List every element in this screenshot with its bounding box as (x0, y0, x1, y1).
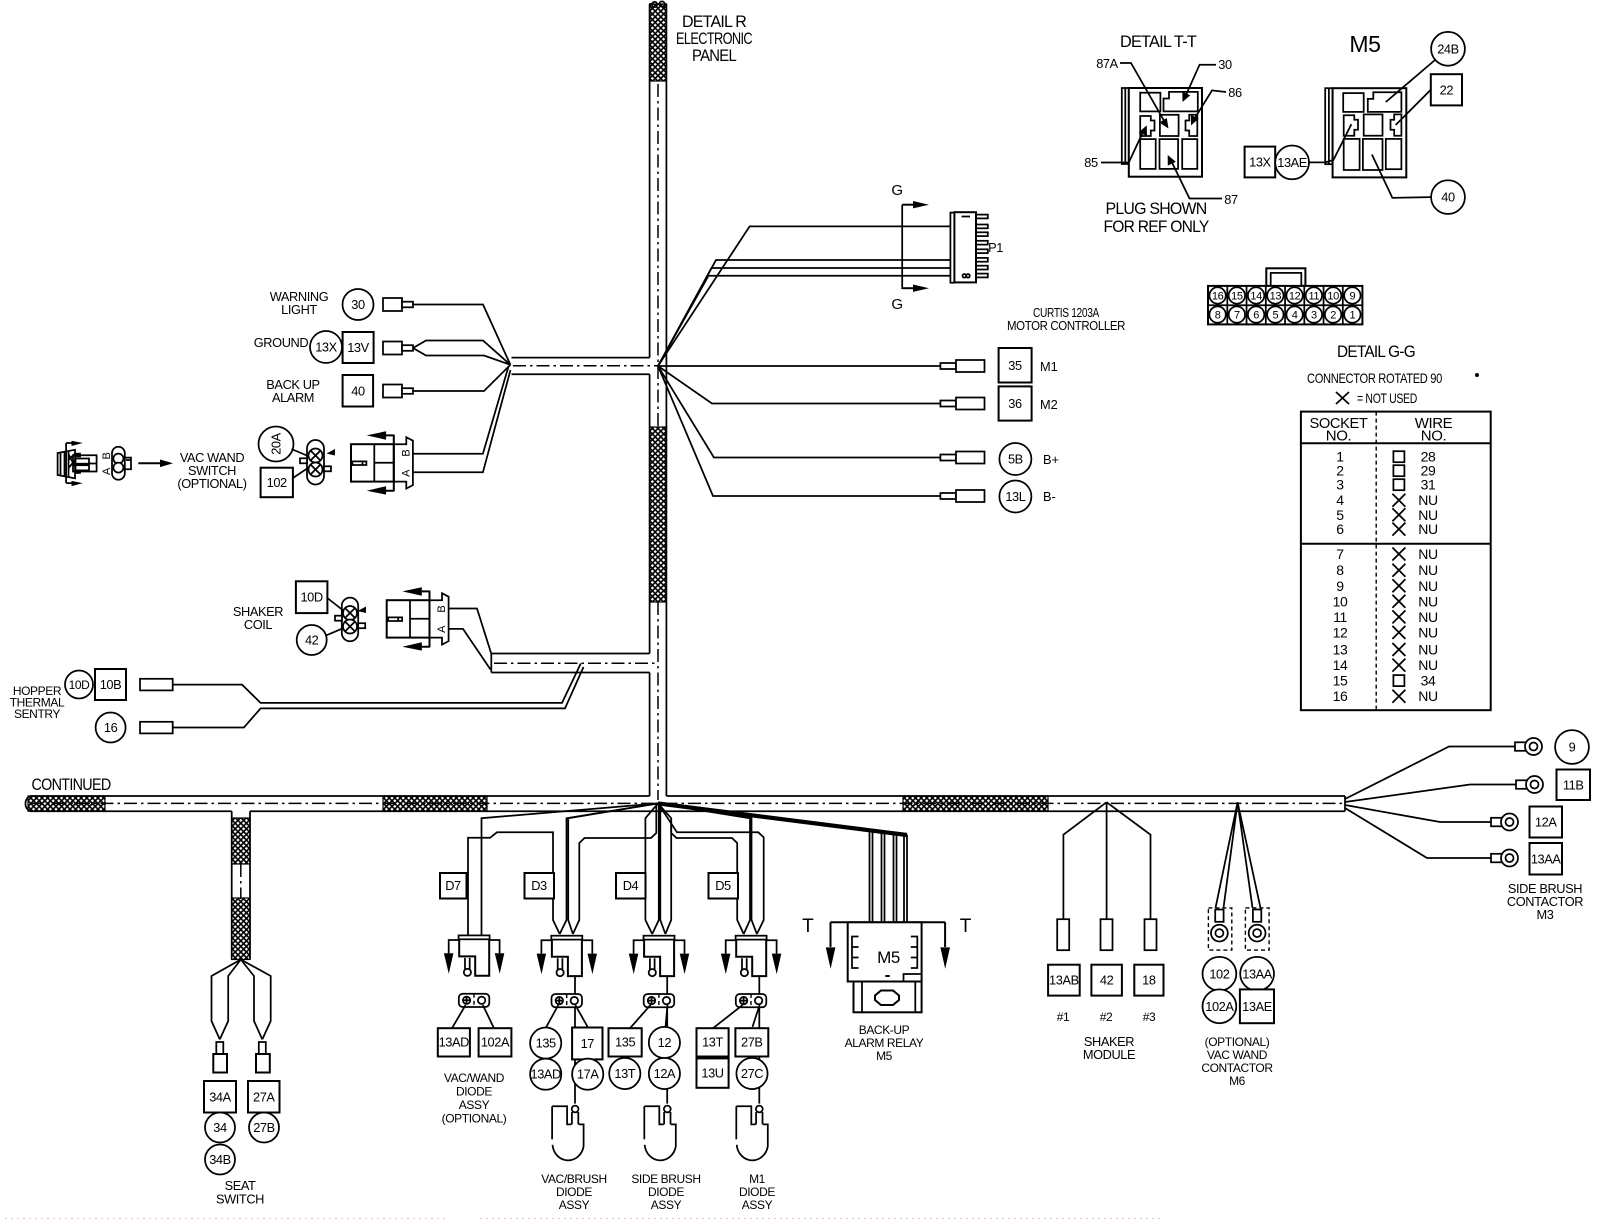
wire circle 27B (249, 1113, 279, 1143)
wire circle 16 (96, 713, 126, 743)
svg-text:17: 17 (581, 1036, 595, 1051)
trunk center line (dash-dot) (657, 84, 659, 800)
scan artifact pink dotted line (5, 1218, 1160, 1220)
svg-text:NO.: NO. (1326, 428, 1351, 445)
svg-text:40: 40 (351, 384, 365, 399)
svg-text:DETAIL R: DETAIL R (682, 13, 747, 31)
wire junction to B- terminal (658, 366, 940, 496)
svg-text:7: 7 (1234, 309, 1240, 321)
wire bundle junction to relay M5 (bold) (658, 803, 907, 835)
svg-text:NU: NU (1418, 492, 1438, 508)
relay M5 (back-up alarm relay) (826, 922, 950, 1012)
wire D3 left V to D7 left lead (shelf) (468, 832, 560, 935)
svg-text:G: G (891, 182, 902, 199)
label 86 with leader arrow (1191, 85, 1242, 125)
svg-text:27C: 27C (741, 1066, 763, 1081)
terminal spade B- (940, 490, 984, 502)
wire box 13V (343, 332, 374, 363)
wire circle 13AD (D3) (530, 1059, 561, 1090)
svg-text:M5: M5 (877, 948, 900, 967)
wire box 10B (95, 669, 126, 700)
svg-text:12: 12 (658, 1035, 672, 1050)
wire panel junction to P1 (4 wires) (658, 226, 950, 366)
svg-text:LIGHT: LIGHT (281, 302, 317, 317)
trunk sheath hatch (top) (650, 4, 667, 81)
svg-text:30: 30 (351, 297, 365, 312)
svg-text:16: 16 (1212, 290, 1224, 302)
svg-text:DETAIL G-G: DETAIL G-G (1337, 343, 1415, 361)
wire junction shelf to D5 right V (658, 803, 764, 934)
wire junction to D7 (right lead) (482, 803, 659, 935)
svg-text:B: B (436, 606, 448, 613)
label M1 DIODE ASSY (739, 1172, 775, 1212)
wire main vertical harness trunk (electronic panel cable) (650, 1, 667, 796)
svg-text:11: 11 (1333, 609, 1347, 625)
svg-text:9: 9 (1336, 578, 1344, 594)
wire junction shelf to D3 right V (573, 803, 656, 934)
wire circle 13AA (M6) (1240, 957, 1274, 991)
svg-text:VAC/BRUSH: VAC/BRUSH (541, 1172, 607, 1186)
svg-text:G: G (891, 296, 902, 313)
connector 2-pin (D4 diode leads) (644, 994, 675, 1007)
svg-text:7: 7 (1336, 546, 1344, 562)
svg-text:8: 8 (1215, 309, 1221, 321)
svg-text:ASSY: ASSY (742, 1198, 773, 1212)
wire box 13AA (1530, 843, 1563, 875)
svg-text:DIODE: DIODE (739, 1185, 775, 1199)
svg-text:102: 102 (267, 475, 287, 490)
terminal spade (hopper bottom) (140, 722, 173, 734)
svg-text:13X: 13X (1249, 155, 1271, 170)
diode symbol (D5 M1) (736, 1106, 768, 1161)
svg-text:10D: 10D (300, 590, 322, 605)
label PLUG SHOWN FOR REF ONLY (1104, 200, 1210, 236)
svg-text:24B: 24B (1437, 41, 1459, 56)
svg-text:5B: 5B (1008, 452, 1023, 467)
wire box 17 (D3) (572, 1028, 602, 1060)
connector diode-assy plug D7 (444, 935, 504, 976)
wire box 13AD (D7) (438, 1028, 470, 1056)
wire D3 2-pin to diode (behind labels) (574, 1007, 576, 1103)
wire M6 contactor drops (1216, 802, 1261, 908)
connector 3-pin oval (vac wand switch) (101, 447, 131, 480)
svg-text:T: T (802, 916, 814, 937)
wire box 35 (999, 348, 1032, 383)
label DETAIL R ELECTRONIC PANEL (676, 13, 753, 65)
svg-text:6: 6 (1253, 309, 1259, 321)
label WARNING LIGHT (270, 289, 329, 317)
wire circle 13T (D4) (609, 1058, 640, 1089)
svg-text:NU: NU (1418, 642, 1438, 658)
svg-text:85: 85 (1084, 155, 1098, 170)
wire ground pair to junction (413, 341, 510, 365)
wire circle 12 (D4) (649, 1027, 680, 1058)
svg-text:A: A (436, 625, 448, 633)
terminal spade M1 (940, 360, 984, 372)
wire box 42 (shaker module) (1091, 965, 1122, 996)
svg-text:15: 15 (1231, 290, 1243, 302)
svg-text:27B: 27B (253, 1120, 275, 1135)
wire circle 24B with leader (1386, 32, 1465, 102)
leader 20A to lamp (292, 449, 309, 456)
svg-text:GROUND: GROUND (254, 335, 309, 350)
svg-text:(OPTIONAL): (OPTIONAL) (177, 476, 246, 491)
svg-text:13AE: 13AE (1242, 999, 1272, 1014)
label CURTIS 1203A MOTOR CONTROLLER (1007, 305, 1125, 333)
wire D4 2-pin to diode (behind labels) (666, 1007, 668, 1103)
svg-text:9: 9 (1569, 740, 1576, 755)
svg-text:NU: NU (1418, 562, 1438, 578)
horizontal trunk hatch (mid-right) (903, 796, 1048, 811)
wire shaker module drops (1063, 802, 1150, 919)
wire box 102A (D7) (479, 1028, 512, 1056)
connector diode-assy plug D5 (721, 936, 781, 977)
svg-text:PANEL: PANEL (692, 47, 737, 65)
svg-text:13AA: 13AA (1531, 851, 1562, 866)
svg-text:4: 4 (1336, 492, 1344, 508)
svg-text:ALARM RELAY: ALARM RELAY (845, 1036, 924, 1050)
arrow pointer to vac wand switch label (138, 460, 173, 468)
svg-text:NU: NU (1418, 624, 1438, 640)
svg-text:ALARM: ALARM (272, 390, 314, 405)
terminal spade B+ (940, 452, 984, 464)
svg-text:13AB: 13AB (1049, 973, 1079, 988)
svg-text:40: 40 (1441, 190, 1455, 205)
svg-text:M1: M1 (1040, 359, 1058, 374)
label 87 with leader arrow (1168, 155, 1238, 207)
wire box 13U (D5) (697, 1058, 729, 1087)
terminal ring (13AA) (1491, 850, 1518, 867)
svg-text:(OPTIONAL): (OPTIONAL) (1205, 1035, 1270, 1049)
terminal ring M6 right (dashed box) (1245, 908, 1269, 950)
horizontal trunk hatch (mid-left) (383, 796, 487, 811)
switch S1 vac wand switch pictorial (58, 441, 97, 486)
svg-text:B-: B- (1043, 489, 1056, 504)
wire circle 13L (999, 481, 1031, 513)
svg-text:1: 1 (1349, 309, 1355, 321)
svg-text:13T: 13T (614, 1066, 635, 1081)
svg-text:SIDE BRUSH: SIDE BRUSH (631, 1172, 700, 1186)
wire box D3 (525, 873, 555, 899)
svg-text:DIODE: DIODE (556, 1185, 592, 1199)
terminal ring M6 left (dashed box) (1208, 908, 1231, 950)
svg-text:M6: M6 (1229, 1074, 1246, 1088)
label (OPTIONAL) VAC WAND CONTACTOR M6 (1201, 1035, 1273, 1088)
wire box D5 (709, 873, 739, 899)
svg-text:8: 8 (1336, 562, 1344, 578)
label SHAKER COIL (233, 604, 283, 632)
label BACK UP ALARM (266, 377, 319, 405)
wire pairs down to relay M5 (870, 830, 908, 922)
wire junction shelf to D5 left V (671, 819, 744, 934)
wire box 13T (D5) (697, 1028, 729, 1056)
svg-text:14: 14 (1333, 657, 1348, 673)
wire circle 102 (M6) (1203, 957, 1237, 991)
svg-text:SENTRY: SENTRY (14, 707, 60, 721)
wire circle 12A (D4) (649, 1058, 680, 1089)
svg-text:P1: P1 (988, 240, 1003, 255)
wire trunk end to ring 9 (1345, 747, 1515, 800)
terminal pin #3 (shaker) (1145, 919, 1157, 950)
svg-text:42: 42 (305, 633, 319, 648)
connector 2-pin (D5 diode leads) (736, 994, 767, 1007)
label SIDE BRUSH CONTACTOR M3 (1507, 881, 1583, 922)
wire circle 20A (rotated) (259, 427, 294, 462)
svg-text:17A: 17A (577, 1067, 599, 1082)
label SEAT SWITCH (216, 1178, 264, 1207)
wire vac wand relay A to junction (413, 370, 511, 472)
wire seat switch branch trunk (232, 811, 250, 959)
wire backup alarm to junction (413, 365, 510, 391)
svg-text:4: 4 (1292, 309, 1298, 321)
wire box 27A (248, 1081, 280, 1113)
svg-text:VAC WAND: VAC WAND (1207, 1048, 1268, 1062)
svg-text:36: 36 (1008, 396, 1022, 411)
svg-text:13X: 13X (315, 340, 337, 355)
connector K1 vac wand relay plug (351, 431, 413, 494)
section marker G-G (bottom arrow) (902, 285, 929, 292)
section marker G-G (top arrow) (902, 201, 929, 289)
svg-text:13T: 13T (702, 1035, 723, 1050)
wire D5 leads to labels (713, 1005, 760, 1028)
terminal pin #1 (shaker) (1057, 919, 1069, 950)
wire box 102 (261, 468, 293, 498)
label HOPPER THERMAL SENTRY (10, 684, 65, 721)
wire circle 30 (343, 289, 374, 320)
wire D4 stub to 2-pin (666, 976, 668, 994)
label VAC BRUSH DIODE ASSY (541, 1172, 607, 1212)
svg-text:9: 9 (1349, 290, 1355, 302)
wire junction to D5 left V (inner) (658, 803, 750, 934)
connector seat switch right (256, 1042, 270, 1073)
wire circle 13S (D3) (530, 1028, 561, 1059)
svg-text:102A: 102A (481, 1035, 510, 1050)
wire box 36 (999, 386, 1032, 420)
label 87A with leader arrow (1096, 56, 1168, 129)
svg-text:102: 102 (1209, 966, 1229, 981)
wire D4 leads to labels (630, 1005, 668, 1028)
wire box 11B (1557, 770, 1591, 801)
horizontal trunk hatch (left end) (28, 796, 105, 811)
wire shaker relay B to mini-trunk (449, 629, 491, 670)
wire circle 9 (1555, 730, 1589, 764)
leader 42 to lamp (326, 628, 343, 635)
connector socket M5 (1325, 88, 1406, 177)
svg-text:13L: 13L (1005, 489, 1025, 504)
svg-text:COIL: COIL (244, 617, 273, 632)
svg-text:FOR REF ONLY: FOR REF ONLY (1104, 218, 1210, 236)
svg-text:NU: NU (1418, 521, 1438, 537)
terminal pin #2 (shaker) (1101, 919, 1113, 950)
wire hopper sentry pair to shaker mini-trunk (173, 664, 584, 728)
svg-text:3: 3 (1336, 477, 1344, 493)
svg-text:(OPTIONAL): (OPTIONAL) (442, 1112, 507, 1126)
wire junction to B+ terminal (658, 366, 940, 458)
svg-text:CONNECTOR ROTATED 90: CONNECTOR ROTATED 90 (1307, 370, 1442, 386)
svg-text:12A: 12A (654, 1066, 676, 1081)
svg-text:M3: M3 (1537, 907, 1554, 922)
svg-text:34: 34 (213, 1120, 227, 1135)
label SHAKER MODULE (1083, 1034, 1135, 1062)
label VAC WAND DIODE ASSY (OPTIONAL) (442, 1071, 507, 1126)
connector 16-pin (detail G-G) (1208, 268, 1362, 324)
svg-text:M1: M1 (749, 1172, 766, 1186)
svg-text:ASSY: ASSY (559, 1198, 590, 1212)
svg-text:34: 34 (1421, 673, 1436, 689)
svg-text:13U: 13U (701, 1065, 723, 1080)
svg-text:27B: 27B (741, 1035, 763, 1050)
wire trunk end to ring 11B (1345, 785, 1516, 803)
svg-text:13: 13 (1270, 290, 1282, 302)
svg-text:10: 10 (1333, 593, 1348, 609)
label 85 with leader arrow (1084, 125, 1147, 170)
svg-text:#3: #3 (1143, 1010, 1156, 1024)
svg-text:12A: 12A (1535, 815, 1557, 830)
wire circle 5B (999, 443, 1031, 475)
svg-text:A: A (101, 467, 113, 475)
svg-text:= NOT USED: = NOT USED (1357, 390, 1417, 406)
svg-text:13AE: 13AE (1277, 155, 1307, 170)
connector 2-pin (D3 diode leads) (552, 994, 583, 1007)
svg-text:NU: NU (1418, 593, 1438, 609)
svg-text:#1: #1 (1057, 1010, 1070, 1024)
connector K2 shaker relay plug (387, 587, 449, 650)
leader 10D to lamp (327, 598, 343, 611)
wire warning light to junction (413, 305, 510, 365)
wire box 12A (1530, 807, 1563, 838)
svg-text:87: 87 (1224, 192, 1238, 207)
seat branch center line (dash-dot) (240, 864, 242, 899)
wire horizontal harness trunk (CONTINUED run) (25, 796, 1345, 811)
svg-text:B+: B+ (1043, 452, 1059, 467)
svg-text:13: 13 (1333, 642, 1348, 658)
svg-text:2: 2 (1330, 309, 1336, 321)
wire circle 34 (205, 1113, 235, 1143)
connector seat switch left (213, 1042, 227, 1073)
label CONNECTOR ROTATED 90 (1307, 370, 1479, 386)
wire trunk end to ring 13AA (1345, 808, 1491, 858)
wire box 13AE (M6) (1240, 989, 1274, 1023)
connector 2-pin (D7 diode leads) (459, 994, 490, 1007)
wire junction to D4 right V (658, 803, 671, 934)
svg-text:34B: 34B (209, 1152, 231, 1167)
wire shaker mini-trunk (sheathed pair to main trunk) (491, 654, 658, 673)
svg-text:D7: D7 (445, 878, 461, 893)
wire junction to M2 terminal (658, 366, 940, 404)
wire junction to D5 right V (inner) (658, 803, 757, 934)
svg-text:MODULE: MODULE (1083, 1047, 1135, 1062)
wire trunk end to ring 12A (1345, 805, 1491, 822)
svg-text:ASSY: ASSY (651, 1198, 682, 1212)
svg-text:13AD: 13AD (530, 1067, 561, 1082)
label VAC WAND SWITCH (OPTIONAL) (177, 450, 246, 491)
svg-text:3: 3 (1311, 309, 1317, 321)
wire junction to D4 left V (645, 803, 658, 934)
svg-text:B: B (400, 450, 412, 457)
svg-text:D4: D4 (623, 878, 639, 893)
trunk sheath hatch (middle) (650, 427, 666, 602)
svg-text:16: 16 (104, 720, 118, 735)
svg-text:B: B (101, 452, 113, 459)
lamp assembly (vac wand bulbs) (300, 440, 335, 485)
wire circle 34B (205, 1145, 235, 1175)
diode symbol (D4 side brush) (644, 1106, 676, 1161)
svg-text:34A: 34A (209, 1089, 231, 1104)
svg-text:22: 22 (1440, 83, 1454, 98)
wire D3 stub to 2-pin (574, 976, 576, 994)
wire vac wand relay B to junction (413, 367, 509, 454)
svg-text:11: 11 (1309, 290, 1320, 302)
svg-text:135: 135 (615, 1035, 635, 1050)
terminal ring (12A) (1491, 814, 1518, 831)
seat branch hatch (upper) (232, 818, 250, 864)
svg-text:5: 5 (1272, 309, 1278, 321)
wire box 34A (204, 1081, 236, 1113)
wire circle 40 with leader (1372, 155, 1465, 215)
svg-text:ASSY: ASSY (459, 1098, 490, 1112)
svg-text:M5: M5 (1349, 31, 1380, 57)
svg-text:M2: M2 (1040, 397, 1058, 412)
label 30 with leader arrow (1182, 57, 1232, 102)
wire box 27B (D5) (735, 1028, 768, 1056)
svg-text:CONTACTOR: CONTACTOR (1201, 1061, 1273, 1075)
svg-text:NU: NU (1418, 688, 1438, 704)
wire circle 27C (D5) (736, 1058, 767, 1089)
svg-text:13AA: 13AA (1242, 966, 1273, 981)
wire box 13X with circle 13AE leader (1245, 124, 1352, 179)
svg-text:20A: 20A (269, 432, 284, 454)
diode symbol (D3 vac brush) (552, 1106, 584, 1161)
svg-text:D5: D5 (715, 878, 731, 893)
svg-text:A: A (400, 469, 412, 477)
svg-text:NO.: NO. (1421, 428, 1446, 445)
svg-text:BACK-UP: BACK-UP (859, 1023, 910, 1037)
wire D3 leads to labels (546, 1005, 588, 1028)
svg-text:27A: 27A (253, 1089, 275, 1104)
terminal ring (11B) (1516, 776, 1543, 793)
svg-text:15: 15 (1333, 673, 1348, 689)
wire box 18 (1134, 965, 1163, 996)
svg-text:10: 10 (1327, 290, 1339, 302)
svg-text:14: 14 (1250, 290, 1262, 302)
wire seat switch fan (212, 960, 271, 1040)
svg-text:135: 135 (536, 1036, 556, 1051)
terminal spade (ground) (383, 342, 413, 355)
svg-text:10B: 10B (100, 677, 122, 692)
svg-text:PLUG SHOWN: PLUG SHOWN (1106, 200, 1207, 218)
svg-text:DETAIL T-T: DETAIL T-T (1120, 33, 1197, 51)
svg-text:86: 86 (1228, 85, 1242, 100)
wire box 13S (D4) (609, 1028, 642, 1056)
terminal spade (backup alarm) (383, 385, 413, 398)
horizontal trunk center line (dash-dot) (30, 802, 1345, 804)
svg-text:CONTINUED: CONTINUED (32, 776, 112, 794)
svg-text:87A: 87A (1096, 56, 1118, 71)
wire circle 17A (D3) (572, 1059, 603, 1090)
svg-text:18: 18 (1142, 973, 1156, 988)
svg-text:NU: NU (1418, 546, 1438, 562)
wire D5 stub to 2-pin (758, 976, 760, 994)
wire box 40 (343, 375, 374, 407)
connector P1 (950, 212, 987, 283)
connector socket detail T-T (1122, 88, 1202, 177)
svg-text:12: 12 (1333, 624, 1348, 640)
wire D5 2-pin to diode (behind labels) (758, 1007, 760, 1103)
svg-text:31: 31 (1421, 477, 1436, 493)
legend X = NOT USED (1336, 390, 1417, 406)
svg-text:ELECTRONIC: ELECTRONIC (676, 30, 753, 48)
wire box 10D (shaker) (296, 581, 328, 613)
